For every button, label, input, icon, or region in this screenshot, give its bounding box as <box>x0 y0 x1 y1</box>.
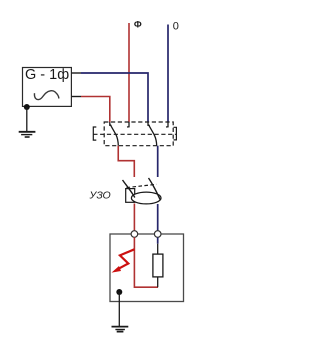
resistor lead top <box>157 244 159 254</box>
RCD trip solenoid box <box>126 189 135 203</box>
wire phase line from top <box>128 23 130 122</box>
RCD toroid ellipse <box>131 192 161 204</box>
generator sine symbol <box>34 91 58 100</box>
fault arrowhead <box>112 266 122 273</box>
wire phase breaker to RCD (red, with jog) <box>118 146 134 177</box>
wire phase from generator (red) <box>81 97 110 123</box>
wire neutral breaker to RCD (blue) <box>157 146 159 177</box>
resistor lead bottom <box>157 277 159 287</box>
breaker right bracket <box>174 127 177 140</box>
resistor R load <box>153 254 163 277</box>
RCD linkage dashed line <box>127 184 157 187</box>
wire load earth <box>118 292 120 326</box>
wire generator earth <box>26 107 28 131</box>
load box <box>110 234 184 302</box>
terminal circle phase <box>131 231 138 238</box>
ground symbol left <box>19 132 36 137</box>
wire phase inside load (red) <box>134 237 158 287</box>
fault current zigzag arrow <box>118 249 135 269</box>
svg-text:0: 0 <box>173 21 179 33</box>
breaker left bracket <box>93 127 96 140</box>
RCD pole2 blade <box>149 178 161 200</box>
generator G-1ф box <box>23 68 72 107</box>
breaker pole1 fixed stub <box>127 122 129 127</box>
wire neutral RCD to load (blue) <box>157 204 159 231</box>
wire neutral line from top <box>167 25 169 123</box>
breaker pole2 blade <box>149 125 157 146</box>
generator bottom terminal stub <box>71 96 81 98</box>
wire neutral from generator (blue) <box>81 73 148 122</box>
breaker pole2 fixed stub <box>166 122 168 127</box>
breaker pole2 input stub <box>148 122 150 126</box>
generator top terminal stub <box>71 72 81 74</box>
breaker QF dashed box <box>104 122 173 146</box>
RCD pole1 blade <box>123 180 135 198</box>
terminal circle neutral <box>154 231 161 238</box>
junction dot at generator bottom-left <box>24 104 30 110</box>
wire neutral inside load (blue) <box>157 237 159 243</box>
breaker linkage dashed mid-line <box>93 133 176 135</box>
svg-text:УЗО: УЗО <box>89 190 111 202</box>
ground symbol bottom <box>112 327 129 332</box>
breaker pole1 input stub <box>110 122 112 126</box>
junction dot in load box <box>116 289 122 295</box>
svg-text:G - 1ф: G - 1ф <box>25 67 69 83</box>
breaker pole1 blade <box>110 125 118 146</box>
svg-text:Ф: Ф <box>134 20 142 30</box>
wire phase RCD to load (red) <box>133 204 135 232</box>
